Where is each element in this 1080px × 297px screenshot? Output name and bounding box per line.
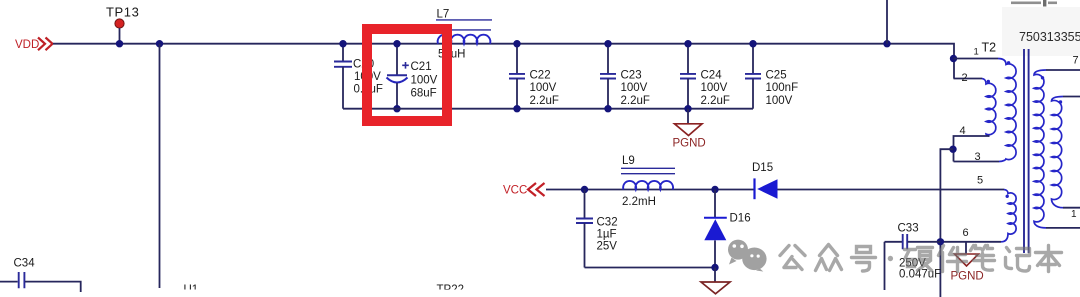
testpoint TP13 xyxy=(115,19,124,28)
svg-text:25V: 25V xyxy=(597,241,618,253)
polarity dot winding 1-3 xyxy=(1007,61,1010,64)
svg-text:100V: 100V xyxy=(530,82,557,94)
wire T2 pin 6 xyxy=(940,241,1001,243)
svg-text:750313355: 750313355 xyxy=(1019,30,1080,44)
svg-text:C23: C23 xyxy=(621,70,642,82)
wire T2 pin 1 xyxy=(954,58,999,60)
svg-text:3: 3 xyxy=(975,151,981,163)
wire TP13 stem xyxy=(119,28,121,44)
svg-text:C24: C24 xyxy=(701,70,723,82)
junction C20 top xyxy=(339,40,346,47)
wire secondary inner bottom xyxy=(1063,207,1080,209)
winding T2 secondary inner xyxy=(1052,97,1064,208)
separator dot xyxy=(888,256,893,261)
svg-text:TP22: TP22 xyxy=(437,284,465,296)
capacitor C33 xyxy=(885,223,942,291)
svg-text:1µF: 1µF xyxy=(597,229,617,241)
capacitor C23 xyxy=(600,44,650,109)
wire secondary inner top xyxy=(1063,96,1080,98)
junction T2 pins 1-2 xyxy=(950,55,957,62)
wire up from rail xyxy=(886,0,888,44)
wire secondary outer bottom xyxy=(1046,227,1080,229)
node VCC chevrons xyxy=(528,183,545,196)
svg-text:6: 6 xyxy=(963,227,969,239)
glyph gong xyxy=(780,246,805,270)
capacitor C25 xyxy=(745,44,798,109)
wire T2 pin 4 xyxy=(954,136,990,162)
svg-text:T2: T2 xyxy=(982,41,997,55)
svg-text:2: 2 xyxy=(962,72,968,84)
glyph ying xyxy=(905,248,933,271)
background tint top right xyxy=(1002,7,1080,56)
inductor L9 xyxy=(621,155,675,208)
svg-text:4: 4 xyxy=(960,125,966,137)
wire VCC rail xyxy=(546,189,755,191)
cropped text fragment top right xyxy=(1011,0,1057,7)
svg-text:2.2mH: 2.2mH xyxy=(622,196,656,208)
svg-text:7: 7 xyxy=(1073,55,1079,67)
junction rail at x887 xyxy=(883,40,890,47)
capacitor C21 (electrolytic) xyxy=(387,44,438,109)
glyph hao xyxy=(852,247,876,272)
svg-text:PGND: PGND xyxy=(673,138,706,150)
junction C22 top xyxy=(513,40,520,47)
polarity dot secondary outer xyxy=(1041,76,1044,79)
junction C25 top xyxy=(749,40,756,47)
svg-text:C25: C25 xyxy=(766,70,787,82)
wire tap to pin6 net xyxy=(940,149,953,297)
capacitor C20 xyxy=(334,44,383,109)
svg-text:100V: 100V xyxy=(621,82,648,94)
svg-text:100V: 100V xyxy=(766,95,793,107)
glyph ji xyxy=(1006,248,1030,272)
svg-text:100V: 100V xyxy=(701,82,728,94)
capacitor C32 xyxy=(576,190,618,268)
wire T2 pin 2 xyxy=(954,78,983,80)
svg-text:D15: D15 xyxy=(752,162,773,174)
svg-text:C32: C32 xyxy=(597,217,618,229)
svg-text:100V: 100V xyxy=(411,75,438,87)
svg-text:TP13: TP13 xyxy=(106,5,139,20)
junction C21 top xyxy=(393,40,400,47)
junction C32 top xyxy=(581,186,588,193)
svg-text:68uF: 68uF xyxy=(411,88,437,100)
junction D16 top xyxy=(711,186,718,193)
svg-text:C34: C34 xyxy=(14,258,36,270)
wire down to U1 xyxy=(159,44,161,288)
junction C21 bottom xyxy=(393,105,400,112)
winding T2 primary inner (pins 2-4) xyxy=(982,79,996,137)
junction pin6 / C33 xyxy=(937,238,944,245)
glyph ben xyxy=(1036,246,1062,272)
svg-text:U1: U1 xyxy=(184,284,199,296)
ground PGND at pin 6 xyxy=(951,242,984,283)
ground PGND under C24 xyxy=(673,109,706,150)
svg-text:C22: C22 xyxy=(530,70,551,82)
wire T2 pin 3 xyxy=(954,161,1000,163)
diode D15 xyxy=(752,162,778,199)
svg-text:C21: C21 xyxy=(411,61,432,73)
winding T2 primary outer (pins 1-3) xyxy=(998,59,1016,162)
junction TP13 xyxy=(116,40,123,47)
winding T2 aux (pins 5-6) xyxy=(1001,190,1016,242)
svg-text:2.2uF: 2.2uF xyxy=(530,95,559,107)
svg-text:1: 1 xyxy=(1071,209,1077,220)
polarity dot secondary inner xyxy=(1059,100,1062,103)
transformer core lines xyxy=(1024,49,1029,253)
junction node to U1 xyxy=(156,40,163,47)
polarity dot winding 5-6 xyxy=(1006,195,1009,198)
glyph zhong xyxy=(816,245,842,271)
diode D16 xyxy=(704,190,751,268)
junction C23 top xyxy=(604,40,611,47)
svg-text:L7: L7 xyxy=(437,9,450,21)
svg-text:C33: C33 xyxy=(898,223,919,235)
svg-text:2.2uF: 2.2uF xyxy=(701,95,730,107)
wire C32 bottom rail xyxy=(585,267,716,269)
watermark text (stylized CJK glyph strokes) xyxy=(780,245,1062,272)
junction C22 bottom xyxy=(513,105,520,112)
glyph bi xyxy=(971,246,995,271)
svg-text:VCC: VCC xyxy=(503,185,527,197)
node VDD chevrons xyxy=(38,38,53,51)
winding T2 secondary outer (pin 7) xyxy=(1034,70,1046,228)
svg-text:D16: D16 xyxy=(730,213,751,225)
svg-text:L9: L9 xyxy=(622,155,635,167)
svg-text:PGND: PGND xyxy=(951,271,984,283)
glyph jian xyxy=(939,246,967,272)
svg-text:5: 5 xyxy=(977,175,983,187)
junction C24 bottom xyxy=(684,105,691,112)
capacitor C22 xyxy=(509,44,559,109)
junction C23 bottom xyxy=(604,105,611,112)
wire bottom rail C20-C25 xyxy=(343,108,753,110)
wire main VDD rail xyxy=(53,44,954,79)
svg-text:100nF: 100nF xyxy=(766,82,799,94)
junction pins 3-4 tap xyxy=(949,146,956,153)
junction D16 bottom xyxy=(711,264,718,271)
capacitor C34 xyxy=(0,258,81,293)
ground PGND under D16 xyxy=(701,268,730,294)
wire T2 pin 5 (from D15 anode) xyxy=(778,189,1005,191)
capacitor C24 xyxy=(680,44,730,109)
highlight red rectangle around C21 xyxy=(367,29,447,121)
inductor L7 xyxy=(436,9,492,61)
junction C24 top xyxy=(684,40,691,47)
wire T2 pin 7 xyxy=(1046,69,1080,71)
svg-text:2.2uF: 2.2uF xyxy=(621,95,650,107)
watermark wechat icon xyxy=(728,240,767,272)
polarity dot winding 2-4 xyxy=(987,80,990,83)
svg-text:1: 1 xyxy=(974,47,979,58)
svg-text:VDD: VDD xyxy=(15,39,39,51)
